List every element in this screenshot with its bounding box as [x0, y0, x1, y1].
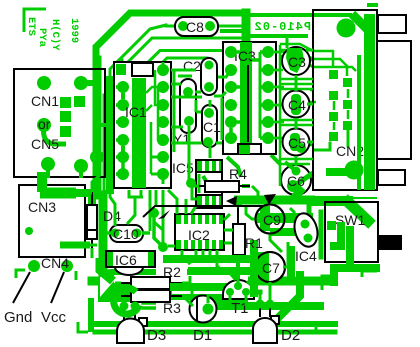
- CN2 top pad: [337, 19, 356, 38]
- IC3 notch: [238, 144, 261, 154]
- wire circle column connections: [270, 50, 313, 283]
- LED D3: [117, 306, 166, 344]
- C8 pads: [178, 21, 188, 31]
- IC3 notch green half: [239, 145, 250, 154]
- wire IC3 to circles thin traces: [274, 50, 316, 145]
- connector CN2 block: [313, 10, 377, 190]
- svg-text:ETS: ETS: [25, 17, 37, 36]
- C4 green: [291, 94, 301, 115]
- CN2 right thick rail: [364, 14, 375, 190]
- svg-text:C5: C5: [288, 135, 306, 151]
- capacitor C5 circle: [283, 129, 310, 156]
- wire bottom bus 5: [95, 330, 335, 335]
- wire bottom bus 2: [108, 290, 260, 295]
- C6 green: [285, 162, 296, 171]
- wire left bus lower segment: [99, 195, 108, 280]
- wire C3 top feed: [286, 36, 289, 48]
- wire vertical rail x280: [279, 45, 282, 186]
- wire C9 left column: [260, 206, 270, 231]
- svg-text:C2: C2: [183, 58, 201, 74]
- wire C8 through trace: [166, 25, 238, 28]
- T1 pads: [226, 288, 234, 296]
- wire band under R4: [192, 186, 315, 219]
- slab white row gap 1: [114, 275, 248, 283]
- IC1 right pads: [157, 64, 169, 180]
- SW1 actuator black: [379, 235, 402, 250]
- svg-text:C10: C10: [113, 226, 139, 242]
- svg-text:Vcc: Vcc: [41, 309, 67, 326]
- svg-text:R2: R2: [163, 264, 181, 280]
- svg-text:CN4: CN4: [41, 255, 69, 271]
- pad right of IC6: [158, 242, 168, 252]
- svg-text:CN1: CN1: [31, 93, 59, 109]
- svg-text:P410-02: P410-02: [254, 20, 311, 34]
- capacitor C6: [281, 165, 311, 195]
- wire D4 top blob: [88, 193, 96, 200]
- diode arrow mid: [158, 210, 170, 219]
- svg-text:1999: 1999: [68, 18, 80, 43]
- slab white row gap 2: [172, 291, 248, 294]
- IC3 left pads: [225, 46, 237, 144]
- wire CN1 bottom stubs: [48, 170, 81, 178]
- wire C8 right to CN2: [218, 25, 241, 28]
- IC3 thick bar: [240, 42, 252, 154]
- pad below IC1: [149, 208, 159, 218]
- board corner mark top-left: [24, 9, 46, 32]
- wire C10 right stub: [104, 218, 161, 245]
- transistor T1: [223, 280, 254, 317]
- wire second top trace: [110, 25, 166, 190]
- wire C9 band row3: [270, 228, 313, 236]
- IC2 body: [175, 214, 224, 250]
- C3 green: [286, 48, 304, 73]
- IC1 left pad stubs: [116, 87, 123, 174]
- C10 pads: [111, 229, 120, 238]
- IC3 inner right vertical: [259, 52, 262, 138]
- slab white notch near T1: [218, 269, 226, 281]
- wire CN3 to D4 link: [85, 175, 100, 258]
- diode arrow right: [264, 194, 276, 205]
- wire bottom bus 4: [95, 321, 335, 327]
- svg-text:R3: R3: [163, 300, 181, 316]
- DB9 connector bottom tab: [378, 170, 405, 185]
- wire under mirrored text: [245, 34, 306, 38]
- R1 pads: [234, 199, 243, 208]
- resistor R1: [233, 206, 245, 269]
- IC1 middle bar: [132, 78, 146, 188]
- svg-text:R4: R4: [229, 166, 247, 182]
- svg-text:C6: C6: [287, 173, 305, 189]
- C5 green: [290, 133, 300, 151]
- slab white patch R2 label: [156, 265, 187, 278]
- svg-text:IC1: IC1: [125, 104, 147, 120]
- wire mid column traces between IC1 and IC3: [171, 70, 231, 183]
- IC3 inner black line: [247, 65, 249, 142]
- wire bottom green slab: [98, 269, 248, 302]
- wire lower area connections: [124, 271, 270, 307]
- SW1 inner traces: [330, 222, 350, 270]
- capacitor C3: [282, 47, 310, 75]
- capacitor C2: [183, 58, 217, 95]
- diode arrow near R4: [226, 196, 237, 206]
- wire top rail to CN2: [250, 13, 350, 17]
- D3 pads: [120, 302, 129, 311]
- svg-text:D3: D3: [147, 327, 166, 344]
- wire fifth top trace: [152, 58, 207, 73]
- wire top outer thick bus: [96, 13, 246, 195]
- capacitor C8: [175, 17, 218, 36]
- wire CN2 bottom bundle: [315, 196, 348, 206]
- wire IC3 pads to rail stubs: [274, 52, 280, 138]
- wire IC1 top pad drops: [121, 60, 124, 66]
- wire CN2 low bits: [314, 143, 330, 150]
- wire R4 right lead stub: [242, 184, 250, 188]
- board edge mark bottom-right1: [362, 271, 377, 277]
- svg-text:CN5: CN5: [31, 136, 59, 152]
- svg-text:D4: D4: [103, 208, 121, 224]
- wire corridor bus CN1-IC1: [106, 80, 114, 190]
- DB9 connector top tab: [378, 15, 406, 33]
- svg-text:IC2: IC2: [188, 227, 210, 243]
- wire C2 feed: [206, 58, 209, 64]
- IC1 pin1 square pad: [116, 64, 126, 75]
- wire left of SW1 vertical: [319, 212, 324, 257]
- jumper line: [143, 206, 264, 217]
- slab white patch R3 label: [156, 300, 190, 313]
- svg-text:D2: D2: [281, 327, 300, 344]
- board corner mark bottom-right3: [316, 322, 326, 332]
- wire left bus elbow to bottom bus: [100, 258, 113, 281]
- wire below IC1 fan: [100, 190, 196, 251]
- wire C5circ to C6 diagonal: [271, 155, 281, 165]
- wire corridor bus 2: [103, 95, 106, 190]
- capacitor C7: [255, 252, 285, 282]
- CN2 bottom pad: [345, 161, 364, 180]
- IC1 left pads: [117, 81, 129, 180]
- wire CN2 feed lines: [281, 44, 313, 51]
- wire R2 R3 stubs: [115, 276, 193, 306]
- IC6 green ends: [107, 252, 113, 266]
- IC U3 body: [223, 42, 276, 154]
- capacitor C9: [256, 205, 285, 234]
- slab white gap left wedge: [100, 277, 114, 297]
- wire left edge vertical to bottom bands: [88, 298, 94, 332]
- IC5 striped body: [172, 160, 222, 208]
- diode D4: [87, 192, 121, 250]
- board edge mark bottom-left of CN4: [16, 270, 25, 278]
- resistor R3: [120, 290, 182, 316]
- IC U1 body: [114, 62, 171, 188]
- wire top bus bend into IC3 column: [242, 13, 251, 40]
- svg-text:or: or: [38, 116, 51, 132]
- IC2 pad stripes: [181, 215, 219, 249]
- IC4 green inside: [301, 220, 310, 229]
- connector CN4 pads: [28, 260, 40, 272]
- svg-text:C4: C4: [288, 97, 306, 113]
- CN2 thin rail: [357, 55, 361, 190]
- svg-text:D1: D1: [193, 327, 212, 344]
- svg-text:PYa: PYa: [36, 28, 48, 48]
- connector CN3: [19, 185, 85, 257]
- svg-text:C8: C8: [186, 19, 204, 35]
- wire CN1 curl: [44, 125, 67, 144]
- wire CN1 TR pad to bus: [84, 80, 95, 86]
- IC6 body: [106, 251, 155, 275]
- board corner mark top-right: [367, 3, 378, 7]
- C1 pads: [204, 108, 214, 118]
- board corner mark bottom-left2: [75, 271, 78, 280]
- capacitor C4: [283, 91, 310, 118]
- wire C9 band row2: [256, 213, 313, 223]
- IC1 right pad stubs: [151, 62, 163, 184]
- svg-text:R1: R1: [245, 235, 263, 251]
- CN2 square pads: [329, 70, 352, 141]
- wire bottom main bus: [92, 277, 332, 286]
- wire bottom right rise: [272, 275, 300, 324]
- DB9 connector body: [377, 41, 411, 159]
- CN2 diagonal top: [352, 14, 368, 30]
- Y1 pads: [183, 87, 193, 97]
- svg-text:CN3: CN3: [28, 199, 56, 215]
- IC3 right pad stubs: [252, 52, 268, 138]
- LED D2: [253, 303, 300, 344]
- wire bottom bus 3: [143, 301, 215, 305]
- wire below SW1 drop: [330, 268, 338, 282]
- IC3 left pad stubs: [225, 52, 240, 134]
- pad under arrow right: [260, 208, 268, 216]
- crystal Y1: [173, 79, 196, 147]
- svg-text:IC4: IC4: [295, 248, 317, 264]
- C2 pads: [205, 61, 214, 70]
- connector CN1: [14, 69, 105, 177]
- capacitor C9 outline restroke: [256, 205, 285, 234]
- capacitor C10: [110, 225, 143, 242]
- switch SW1: [325, 202, 378, 262]
- connector CN1 pads: [37, 76, 104, 173]
- wire circle gap lines: [280, 79, 313, 164]
- svg-text:C3: C3: [288, 54, 306, 70]
- wire hook around D3: [114, 288, 139, 314]
- resistor R4: [196, 166, 250, 192]
- D1 pad: [203, 304, 214, 315]
- svg-text:IC5: IC5: [172, 160, 194, 176]
- C7 green strip: [258, 252, 269, 282]
- board edge mark bottom-right2: [322, 276, 338, 290]
- capacitor C1: [202, 105, 221, 147]
- svg-text:C1: C1: [203, 119, 221, 135]
- wire band right connector: [307, 200, 312, 232]
- wire above SW1 thin: [302, 197, 376, 199]
- via in CN3: [25, 227, 33, 235]
- D2 pads: [256, 300, 265, 309]
- wire CN4 pointer lines: [13, 272, 30, 303]
- wire CN1 right elbow: [100, 125, 108, 140]
- CN2 staircase traces: [314, 51, 356, 130]
- LED D1: [190, 296, 217, 345]
- wire IC2 to surroundings: [168, 214, 233, 272]
- SW1 pad: [327, 221, 336, 230]
- resistor R2: [120, 264, 182, 289]
- IC1 inner traces: [123, 70, 163, 174]
- svg-text:H(C)Y: H(C)Y: [49, 19, 61, 51]
- wire below SW1 band: [334, 264, 376, 272]
- svg-text:C7: C7: [262, 260, 280, 276]
- svg-text:Gnd: Gnd: [4, 309, 32, 326]
- wire SW1 diagonal: [348, 202, 368, 221]
- svg-text:IC6: IC6: [115, 252, 137, 268]
- wire fourth top trace: [138, 51, 230, 73]
- IC3 right pads: [262, 46, 274, 144]
- wire left bus along CN1: [93, 60, 102, 195]
- wire C8 right chunk: [222, 29, 240, 33]
- wire notch elbow below IC3: [227, 157, 241, 177]
- wire third top trace: [125, 38, 240, 65]
- IC4 oval: [291, 211, 321, 250]
- board corner mark bottom-left: [78, 322, 88, 332]
- wire CN3 traces: [40, 172, 97, 245]
- wire IC2 bottom bands: [163, 240, 254, 297]
